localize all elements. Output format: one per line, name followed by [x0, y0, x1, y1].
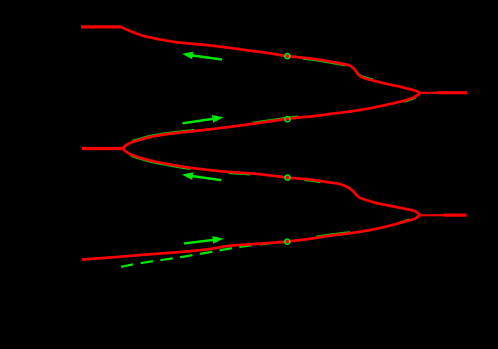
green fringe below B near right fold	[404, 97, 416, 102]
red flat top left	[81, 25, 121, 28]
green fringe below C mid	[228, 173, 250, 175]
green fringe below C near left fold	[130, 156, 190, 170]
green fringe below C right	[304, 181, 320, 183]
red branch D	[82, 215, 420, 259]
green fringe under A right of marker	[303, 59, 345, 66]
green fringe above A at step	[357, 71, 373, 79]
green circle marker 1	[285, 54, 290, 59]
red branch C	[122, 149, 420, 216]
red branch B	[122, 93, 420, 149]
green circle marker 2	[285, 117, 290, 122]
red flat right fold 2 thick	[444, 214, 467, 217]
red flat right fold 2 thin	[420, 214, 446, 216]
green dashed unstable branch (bottom left)	[121, 216, 420, 267]
green arrow 2 (right)	[182, 115, 223, 125]
red flat right fold 1 thick	[437, 91, 468, 94]
green fringe above B mid	[252, 116, 298, 122]
green arrow 3 (left)	[182, 172, 222, 181]
red flat left fold	[82, 147, 123, 150]
green fringe above D right	[316, 232, 350, 237]
red flat right fold 1 thin	[420, 92, 437, 94]
green arrow 1 (left)	[182, 52, 222, 61]
green fringe above B near left fold	[132, 130, 194, 141]
red branch A	[121, 27, 420, 93]
green circle marker 3	[285, 175, 290, 180]
green arrow 4 (right)	[184, 236, 224, 245]
green circle marker 4	[285, 239, 290, 244]
